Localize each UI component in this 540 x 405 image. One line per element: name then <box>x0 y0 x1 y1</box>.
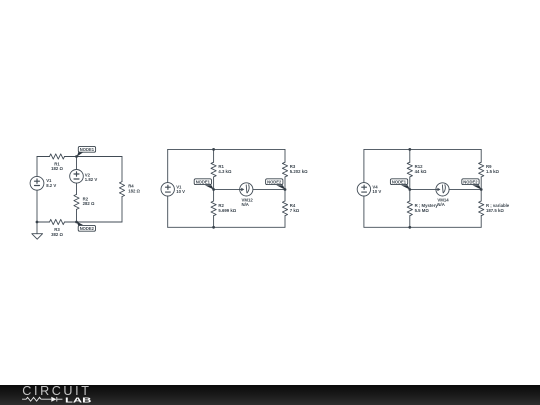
wire C branch2-mid <box>480 177 482 190</box>
wire A V2-R2 <box>76 183 78 194</box>
wire A bottom-right <box>65 221 123 223</box>
logo diode triangle <box>51 397 56 402</box>
resistor R2 (left circuit) <box>74 194 79 209</box>
resistor R-variable (right circuit) <box>479 201 484 216</box>
wire C branch1-low <box>409 190 411 202</box>
node NODE1 (right circuit) <box>390 179 410 190</box>
wire A right-lower <box>121 197 123 222</box>
wire A left-upper <box>36 157 38 177</box>
junction C top <box>408 148 411 151</box>
svg-text:NODE2: NODE2 <box>80 226 95 231</box>
svg-text:NODE1: NODE1 <box>80 147 95 152</box>
svg-text:4.3 kΩ: 4.3 kΩ <box>218 169 232 174</box>
svg-text:LAB: LAB <box>65 395 92 404</box>
svg-text:7 kΩ: 7 kΩ <box>290 208 300 213</box>
wire B branch2-low <box>284 190 286 202</box>
wire A R2-bottom <box>76 209 78 222</box>
junction at ground corner <box>36 221 39 224</box>
ground <box>32 222 43 239</box>
wire A bottom-left <box>37 221 50 223</box>
wire C branch1-bottom <box>409 216 411 228</box>
svg-text:NODE1: NODE1 <box>392 179 407 184</box>
junction B node2 <box>284 188 287 191</box>
voltmeter VM12 <box>240 183 253 196</box>
junction B top <box>212 148 215 151</box>
svg-text:10 V: 10 V <box>372 189 381 194</box>
wire C branch2-low <box>480 190 482 202</box>
voltage source V1 (middle circuit) <box>161 183 174 196</box>
resistor R4 (middle circuit) <box>282 201 287 216</box>
wire C mid-left <box>410 188 436 190</box>
wire B branch2-top <box>284 149 286 162</box>
logo bar <box>0 385 540 405</box>
wire C branch1-top <box>409 149 411 162</box>
wire B branch1-mid <box>213 177 215 190</box>
wire C top <box>364 148 481 150</box>
resistor R9 (right circuit) <box>479 162 484 177</box>
wire C left-upper <box>363 149 365 182</box>
wire C branch2-top <box>480 149 482 162</box>
voltage source V2 (left circuit) <box>70 170 84 184</box>
voltmeter VM14 <box>436 183 449 196</box>
svg-text:N/A: N/A <box>242 202 249 207</box>
wire B mid-left <box>214 188 240 190</box>
svg-text:182 Ω: 182 Ω <box>51 166 63 171</box>
wire B mid-right <box>253 188 285 190</box>
voltage source V1 (left circuit) <box>30 176 44 190</box>
svg-text:182 Ω: 182 Ω <box>128 188 140 193</box>
wire C branch2-bottom <box>480 216 482 228</box>
svg-text:382 Ω: 382 Ω <box>51 232 63 237</box>
node NODE1 (middle circuit) <box>194 179 214 190</box>
resistor R1 (middle circuit) <box>211 162 216 177</box>
junction at NODE1 (left circuit) <box>75 155 78 158</box>
svg-text:5.5 MΩ: 5.5 MΩ <box>415 208 430 213</box>
wire C left-lower <box>363 196 365 227</box>
wire B bottom <box>168 226 285 228</box>
wire A V2-top <box>76 157 78 170</box>
wire A right-upper <box>121 157 123 182</box>
svg-text:10 V: 10 V <box>176 189 185 194</box>
svg-text:187.5 kΩ: 187.5 kΩ <box>486 208 504 213</box>
wire A left-lower <box>36 190 38 222</box>
svg-text:5.699 kΩ: 5.699 kΩ <box>218 208 236 213</box>
node NODE2 (left circuit) <box>76 221 95 231</box>
junction C node1 <box>408 188 411 191</box>
svg-text:NODE2: NODE2 <box>267 179 282 184</box>
svg-text:8.2 V: 8.2 V <box>46 183 56 188</box>
resistor R-Mystery (right circuit) <box>407 201 412 216</box>
wire C branch1-mid <box>409 177 411 190</box>
resistor R4 (left circuit) <box>119 182 124 197</box>
wire B left-lower <box>167 196 169 227</box>
junction at NODE2 (left circuit) <box>75 221 78 224</box>
junction B node1 <box>212 188 215 191</box>
resistor R12 (right circuit) <box>407 162 412 177</box>
node NODE1 (left circuit) <box>77 146 96 156</box>
wire B branch1-bottom <box>213 216 215 228</box>
svg-text:NODE2: NODE2 <box>463 179 478 184</box>
wire B top <box>168 148 285 150</box>
svg-text:44 kΩ: 44 kΩ <box>415 169 427 174</box>
wire B branch2-bottom <box>284 216 286 228</box>
resistor R3 (left circuit) <box>50 219 65 224</box>
wire A top-left <box>37 156 50 158</box>
wire B branch1-low <box>213 190 215 202</box>
svg-text:NODE1: NODE1 <box>196 179 211 184</box>
resistor R1 (left circuit) <box>50 154 65 159</box>
node NODE2 (middle circuit) <box>266 179 286 190</box>
logo resistor-diode glyph <box>22 397 62 402</box>
svg-text:1.82 V: 1.82 V <box>85 177 98 182</box>
node NODE2 (right circuit) <box>462 179 482 190</box>
wire C bottom <box>364 226 481 228</box>
resistor R2 (middle circuit) <box>211 201 216 216</box>
wire B left-upper <box>167 149 169 182</box>
junction B bottom <box>212 226 215 229</box>
svg-text:N/A: N/A <box>437 202 444 207</box>
wire A top-right <box>65 156 123 158</box>
resistor R3 (middle circuit) <box>282 162 287 177</box>
wire B branch2-mid <box>284 177 286 190</box>
svg-text:282 Ω: 282 Ω <box>83 201 95 206</box>
voltage source V4 (right circuit) <box>357 183 370 196</box>
junction C bottom <box>408 226 411 229</box>
svg-text:1.5 kΩ: 1.5 kΩ <box>486 169 500 174</box>
junction C node2 <box>480 188 483 191</box>
wire B branch1-top <box>213 149 215 162</box>
wire C mid-right <box>449 188 481 190</box>
svg-text:5.202 kΩ: 5.202 kΩ <box>290 169 308 174</box>
